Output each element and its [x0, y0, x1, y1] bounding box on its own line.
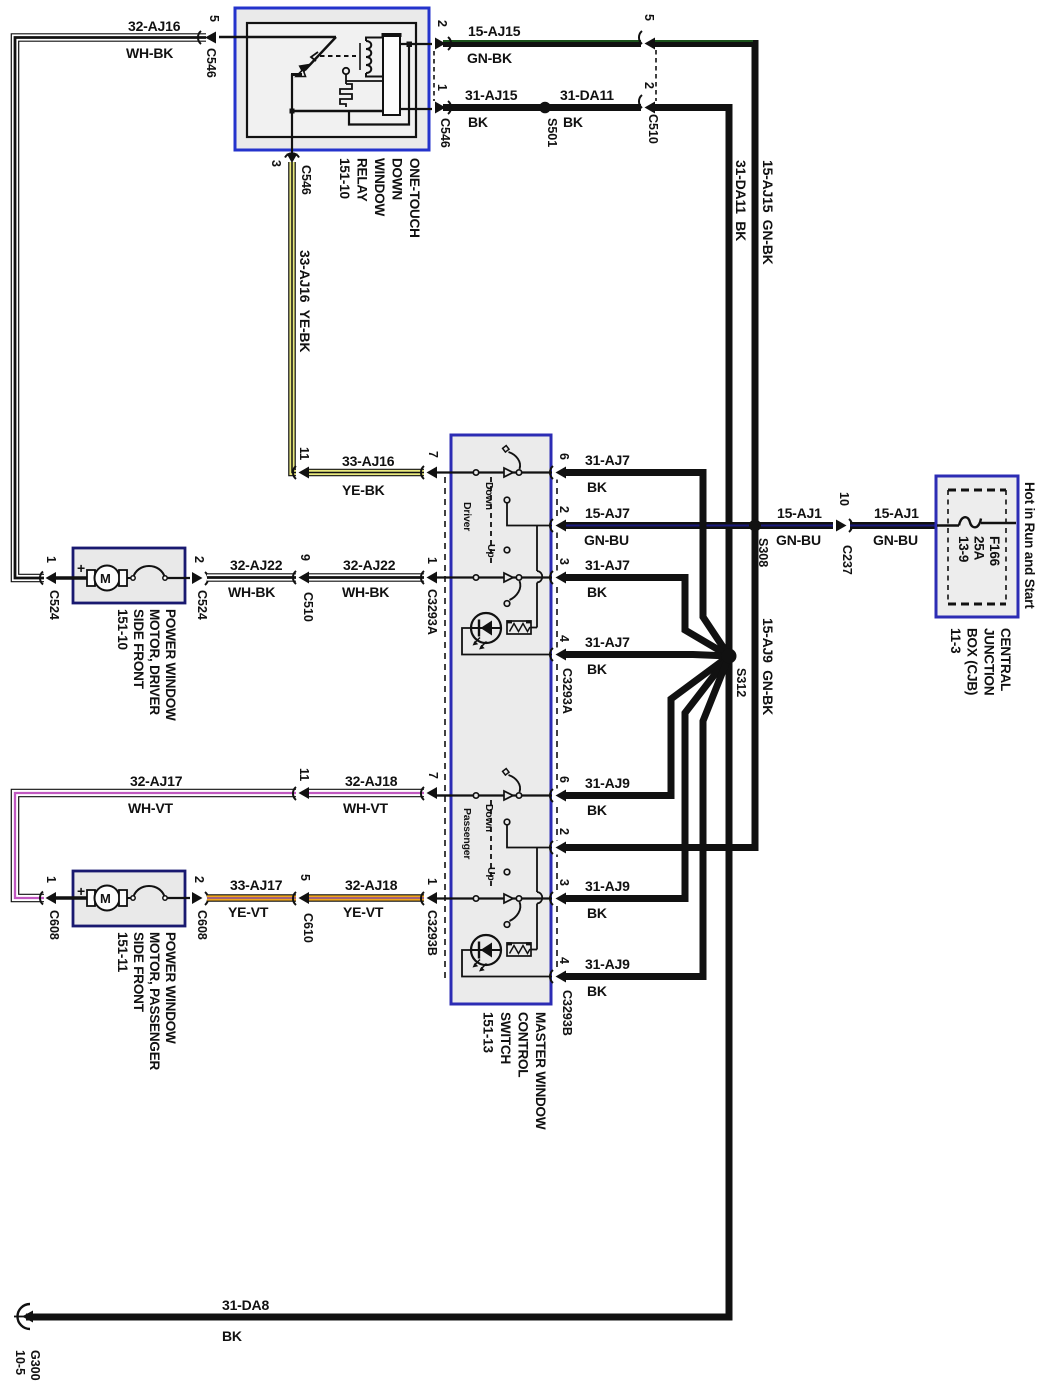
- svg-text:15-AJ15 GN-BK: 15-AJ15 GN-BK: [760, 160, 776, 265]
- passenger row1 internal wire: [436, 794, 557, 796]
- connector C546 pin2 arrow: [432, 36, 451, 51]
- passenger row3 blade triangle: [504, 894, 513, 903]
- svg-text:31-AJ15: 31-AJ15: [465, 87, 518, 103]
- switch edge arrow pin2 driver: [550, 519, 566, 533]
- driver row3 blade triangle: [504, 573, 513, 582]
- svg-text:WH-BK: WH-BK: [228, 584, 275, 600]
- svg-text:C546: C546: [204, 48, 218, 78]
- connector C608 pin1 arrow: [40, 891, 56, 905]
- svg-text:BK: BK: [587, 661, 607, 677]
- switch edge arrow pin2 passenger: [550, 841, 566, 855]
- wire 15-AJ15 GN-BK relay pin2 to C510: [443, 40, 646, 47]
- svg-text:Hot in Run and Start: Hot in Run and Start: [1022, 482, 1037, 609]
- connector C610 pin5 arrow: [293, 891, 309, 906]
- pin 3 label: [269, 160, 283, 167]
- svg-text:CENTRAL: CENTRAL: [998, 628, 1013, 691]
- relay dashed actuator link: [320, 55, 356, 57]
- svg-text:5: 5: [642, 14, 656, 21]
- svg-text:7: 7: [426, 451, 440, 458]
- svg-text:S501: S501: [545, 118, 559, 147]
- connector C3293B pin7 arrow: [421, 786, 437, 801]
- svg-text:SIDE FRONT: SIDE FRONT: [131, 609, 146, 690]
- svg-text:C610: C610: [301, 913, 315, 943]
- splice S308 label: [756, 538, 770, 567]
- svg-text:5: 5: [207, 15, 221, 22]
- wire 32-AJ18 WH-VT C610 to C3293B: [309, 789, 428, 798]
- passenger row1 contact circle left: [473, 793, 478, 798]
- svg-text:C510: C510: [301, 592, 315, 622]
- svg-text:BK: BK: [587, 983, 607, 999]
- wire 31-AJ7 BK driver pin4 to S312: [566, 655, 729, 657]
- svg-text:31-DA11: 31-DA11: [560, 87, 614, 103]
- svg-text:32-AJ22: 32-AJ22: [230, 557, 283, 573]
- connector C524 pin2 arrow: [190, 571, 208, 585]
- connector C3293B label right: [560, 990, 574, 1036]
- svg-text:SIDE FRONT: SIDE FRONT: [131, 932, 146, 1013]
- relay lower loop wire: [349, 109, 409, 125]
- fuse F166 25A: [937, 517, 1016, 527]
- ground G300 symbol: [14, 1304, 33, 1329]
- connector C524 pin1 arrow: [40, 571, 56, 585]
- driver row3 blade arc to up contact: [510, 581, 521, 600]
- connector C510 pin11 arrow: [293, 465, 309, 480]
- svg-text:11-3: 11-3: [948, 628, 963, 654]
- svg-text:11: 11: [297, 768, 311, 781]
- svg-text:5: 5: [298, 874, 312, 881]
- svg-text:C524: C524: [195, 590, 209, 620]
- pin 2 label: [435, 20, 449, 27]
- splice S501: [539, 102, 551, 114]
- svg-text:C608: C608: [195, 910, 209, 940]
- switch edge arrow pin3 driver: [550, 571, 566, 585]
- relay switch blade: [299, 37, 337, 74]
- svg-text:WINDOW: WINDOW: [372, 158, 387, 216]
- driver down contact and feed to pin2: [504, 497, 510, 503]
- svg-text:BK: BK: [587, 905, 607, 921]
- passenger row1 blade triangle: [504, 791, 513, 800]
- passenger row3 pivot circle: [516, 896, 521, 901]
- svg-text:3: 3: [557, 558, 571, 565]
- ground G300 label: [13, 1350, 42, 1381]
- wire 31-AJ9 BK passenger pin6 to S312: [566, 656, 729, 796]
- passenger row3 internal wire: [436, 897, 557, 899]
- svg-text:11: 11: [297, 447, 311, 460]
- connector C510 label: [646, 114, 660, 144]
- relay switch contact: [296, 70, 306, 77]
- wire 33-AJ16 YE-BK relay pin3 down to C510: [292, 162, 300, 473]
- relay pin 2 lead: [400, 43, 437, 45]
- svg-text:2: 2: [642, 82, 656, 89]
- svg-text:15-AJ15: 15-AJ15: [468, 23, 521, 39]
- driver feed branch to resistor with hop: [536, 526, 538, 572]
- passenger row3 contact circle left: [473, 896, 478, 901]
- wire 31-AJ7 BK driver pin3 to S312: [566, 578, 729, 657]
- svg-text:3: 3: [269, 160, 283, 167]
- relay solid-state block: [383, 34, 400, 115]
- svg-text:GN-BU: GN-BU: [776, 532, 821, 548]
- driver down-up dashed line: [490, 477, 492, 563]
- driver lamp resistor: [507, 621, 532, 634]
- passenger motor label: [115, 932, 178, 1071]
- svg-text:32-AJ17: 32-AJ17: [130, 773, 183, 789]
- relay internal junction dot: [290, 109, 295, 114]
- pin 1 label: [435, 84, 449, 91]
- wire driver row1 internal: [436, 471, 557, 473]
- driver row1 blade triangle: [504, 468, 513, 477]
- driver row1 contact circle left: [473, 470, 478, 475]
- wire 32-AJ17 WH-VT passenger motor pin1 run: [15, 793, 299, 898]
- svg-text:C524: C524: [47, 590, 61, 620]
- splice S312: [722, 649, 737, 664]
- svg-text:WH-VT: WH-VT: [128, 800, 174, 816]
- relay resistor zigzag: [340, 84, 352, 107]
- svg-text:CONTROL: CONTROL: [516, 1012, 531, 1077]
- svg-text:2: 2: [557, 506, 571, 513]
- connector C608 pin2 arrow: [190, 891, 208, 905]
- connector C237 arrow: [833, 518, 852, 533]
- splice S308: [749, 520, 761, 532]
- svg-text:C546: C546: [299, 165, 313, 195]
- svg-text:M: M: [100, 571, 111, 586]
- svg-text:BOX (CJB): BOX (CJB): [965, 628, 980, 695]
- label 15-AJ9 GN-BK vertical: [760, 618, 776, 715]
- wire 31-AJ15 BK relay pin1 to S501: [443, 104, 545, 111]
- connector C510 pin5 arrow: [639, 31, 655, 51]
- label 15-AJ15 GN-BK vertical: [760, 160, 776, 265]
- passenger down-up dashed line: [490, 800, 492, 886]
- wire 33-AJ16 YE-BK C510 to switch pin7: [309, 469, 428, 477]
- connector C546 pin3 label: [299, 165, 313, 195]
- svg-text:32-AJ16: 32-AJ16: [128, 18, 181, 34]
- svg-text:9: 9: [298, 554, 312, 561]
- passenger switch row1 stub: [436, 794, 451, 796]
- power window motor passenger box: [73, 871, 185, 926]
- svg-text:15-AJ7: 15-AJ7: [585, 505, 630, 521]
- driver row3 contact circle left: [473, 575, 478, 580]
- central junction box CJB: [936, 476, 1018, 617]
- svg-text:151-10: 151-10: [337, 158, 352, 199]
- svg-text:ONE-TOUCH: ONE-TOUCH: [407, 158, 422, 238]
- relay output junction square: [407, 42, 413, 48]
- driver row3 pivot circle: [516, 575, 521, 580]
- svg-text:33-AJ17: 33-AJ17: [230, 877, 283, 893]
- svg-text:6: 6: [557, 776, 571, 783]
- svg-text:Driver: Driver: [461, 502, 473, 531]
- connector C546 dashed link: [433, 51, 435, 101]
- svg-text:32-AJ18: 32-AJ18: [345, 877, 398, 893]
- relay pin3 lead through case: [291, 111, 293, 158]
- svg-text:C3293A: C3293A: [560, 668, 574, 714]
- svg-text:WH-BK: WH-BK: [342, 584, 389, 600]
- svg-text:31-AJ9: 31-AJ9: [585, 878, 630, 894]
- svg-text:BK: BK: [222, 1328, 242, 1344]
- label Down passenger: [483, 804, 495, 832]
- svg-text:GN-BK: GN-BK: [467, 50, 512, 66]
- svg-text:C546: C546: [438, 118, 452, 148]
- connector C546 pin3 arrow: [285, 153, 299, 163]
- svg-text:Down: Down: [483, 482, 495, 510]
- wire 32-AJ16 WH-BK from relay pin5 to driver motor pin1: [15, 38, 206, 579]
- svg-text:1: 1: [425, 878, 439, 885]
- wire 31-DA11 BK S501 to C510: [545, 104, 646, 111]
- svg-text:25A: 25A: [972, 536, 987, 561]
- svg-text:1: 1: [435, 84, 449, 91]
- passenger up contact: [504, 869, 510, 875]
- relay inner case: [247, 23, 416, 137]
- passenger lamp wire to pin4: [462, 950, 557, 977]
- relay internal bottom wire: [292, 110, 400, 112]
- svg-text:BK: BK: [563, 114, 583, 130]
- svg-text:BK: BK: [587, 802, 607, 818]
- wire 31-AJ9 BK passenger pin3 to S312: [566, 656, 729, 899]
- wire 31-AJ7 BK driver pin6 to S312: [566, 473, 729, 657]
- wire 33-AJ17 YE-VT C608 to C610: [207, 894, 299, 902]
- svg-text:1: 1: [44, 556, 58, 563]
- switch edge arrow pin6 passenger: [550, 789, 566, 803]
- relay label: [337, 158, 422, 238]
- svg-text:15-AJ1: 15-AJ1: [874, 505, 919, 521]
- svg-text:+: +: [77, 560, 85, 576]
- label Passenger: [461, 808, 473, 859]
- driver lamp wire to pin4: [462, 628, 557, 655]
- passenger row3 blade arc to up contact: [510, 902, 521, 921]
- connector C546 label left: [204, 48, 218, 78]
- svg-text:WH-BK: WH-BK: [126, 45, 173, 61]
- passenger motor symbol: [53, 886, 192, 911]
- svg-text:4: 4: [557, 635, 571, 642]
- svg-text:31-AJ7: 31-AJ7: [585, 557, 630, 573]
- svg-text:2: 2: [435, 20, 449, 27]
- label Hot in Run and Start: [1022, 482, 1037, 609]
- svg-text:10: 10: [837, 492, 851, 506]
- master window control switch box: [451, 435, 551, 1004]
- svg-text:DOWN: DOWN: [390, 158, 405, 200]
- svg-text:M: M: [100, 891, 111, 906]
- relay pin 5 internal wire: [219, 36, 336, 38]
- switch edge arrow pin4 driver: [550, 648, 566, 662]
- svg-text:2: 2: [192, 876, 206, 883]
- svg-text:2: 2: [557, 828, 571, 835]
- svg-text:C3293A: C3293A: [425, 589, 439, 635]
- svg-text:31-DA11 BK: 31-DA11 BK: [733, 160, 749, 241]
- wire 31-AJ9 BK passenger pin4 to S312: [566, 656, 729, 977]
- label Up driver: [485, 544, 497, 558]
- svg-text:6: 6: [557, 453, 571, 460]
- svg-text:32-AJ22: 32-AJ22: [343, 557, 396, 573]
- svg-text:151-11: 151-11: [115, 932, 130, 973]
- driver illumination lamp: [470, 613, 502, 650]
- label 31-DA11 BK vertical: [733, 160, 749, 241]
- svg-text:C3293B: C3293B: [425, 910, 439, 956]
- switch edge arrow pin4 passenger: [550, 970, 566, 984]
- label Driver: [461, 502, 473, 531]
- connector C3293B pin1 arrow: [421, 891, 437, 906]
- svg-text:4: 4: [557, 957, 571, 964]
- svg-text:32-AJ18: 32-AJ18: [345, 773, 398, 789]
- svg-text:S312: S312: [734, 668, 748, 697]
- driver motor label: [115, 609, 178, 721]
- wire 32-AJ18 YE-VT C610 to C3293B: [309, 894, 428, 902]
- label 33-AJ16 YE-BK vertical: [297, 250, 313, 352]
- CJB dashed fuse holder rect: [948, 490, 1006, 604]
- connector C546 label right: [438, 118, 452, 148]
- pin 5 label: [207, 15, 221, 22]
- passenger lamp resistor: [507, 943, 532, 956]
- connector C510 dashed link: [655, 50, 657, 101]
- svg-text:BK: BK: [587, 479, 607, 495]
- svg-text:RELAY: RELAY: [355, 158, 370, 202]
- passenger illumination lamp: [470, 935, 502, 972]
- passenger row1 blade arc to down contact: [509, 775, 521, 792]
- svg-text:33-AJ16 YE-BK: 33-AJ16 YE-BK: [297, 250, 313, 352]
- svg-text:31-AJ9: 31-AJ9: [585, 956, 630, 972]
- svg-text:3: 3: [557, 879, 571, 886]
- fuse label F166 25A 13-9: [956, 536, 1002, 567]
- svg-text:Up: Up: [485, 544, 497, 558]
- svg-text:YE-VT: YE-VT: [228, 904, 269, 920]
- svg-text:13-9: 13-9: [956, 536, 971, 562]
- wire 15-AJ9 GN-BK S308 down to switch passenger pin2: [566, 529, 755, 848]
- svg-text:C3293B: C3293B: [560, 990, 574, 1036]
- wire 31-DA11 BK trunk down through S312 to ground run: [26, 108, 729, 1318]
- svg-text:GN-BU: GN-BU: [873, 532, 918, 548]
- svg-text:Up: Up: [485, 867, 497, 881]
- driver row1 blade arc to down contact: [509, 452, 521, 469]
- svg-text:15-AJ1: 15-AJ1: [777, 505, 822, 521]
- label Up passenger: [485, 867, 497, 881]
- driver motor symbol: [53, 566, 192, 591]
- wire 15-AJ7 GN-BU switch pin2 to S308: [566, 522, 836, 529]
- svg-text:151-10: 151-10: [115, 609, 130, 650]
- connector C3293A pin7 arrow: [421, 465, 437, 480]
- wire 15-AJ15 GN-BK trunk down to S308: [655, 44, 755, 526]
- svg-text:POWER WINDOW: POWER WINDOW: [163, 932, 178, 1044]
- passenger down contact and feed to pin2: [504, 819, 510, 825]
- wire 15-AJ1 GN-BU C237 to CJB: [850, 522, 937, 529]
- master switch label: [481, 1012, 549, 1130]
- connector C546 pin1 arrow: [432, 100, 451, 115]
- svg-text:31-AJ7: 31-AJ7: [585, 452, 630, 468]
- svg-text:MOTOR, DRIVER: MOTOR, DRIVER: [147, 609, 162, 715]
- svg-text:JUNCTION: JUNCTION: [981, 628, 996, 695]
- svg-text:15-AJ9 GN-BK: 15-AJ9 GN-BK: [760, 618, 776, 715]
- connector C546 pin5 arrow: [198, 31, 216, 44]
- switch edge arrows right: pin6 driver: [550, 466, 566, 480]
- svg-text:BK: BK: [468, 114, 488, 130]
- relay resistor node circle: [343, 68, 349, 74]
- svg-text:Passenger: Passenger: [461, 808, 473, 859]
- svg-text:YE-VT: YE-VT: [343, 904, 384, 920]
- svg-text:SWITCH: SWITCH: [498, 1012, 513, 1064]
- svg-text:Down: Down: [483, 804, 495, 832]
- connector C3293A label right: [560, 668, 574, 714]
- svg-text:1: 1: [44, 876, 58, 883]
- relay coil: [360, 38, 384, 77]
- connector C3293A pin1 arrow: [421, 570, 437, 585]
- wire 32-AJ22 WH-BK C510 to C3293A: [309, 573, 428, 582]
- switch edge arrow pin3 passenger: [550, 892, 566, 906]
- connector C3293 dashed line left: [444, 477, 446, 978]
- svg-text:POWER WINDOW: POWER WINDOW: [163, 609, 178, 721]
- relay wire contact to junction: [291, 73, 302, 76]
- connector C510 pin9 arrow: [293, 570, 309, 585]
- svg-text:C510: C510: [646, 114, 660, 144]
- driver up contact: [504, 547, 510, 553]
- svg-text:10-5: 10-5: [13, 1350, 27, 1375]
- svg-text:1: 1: [425, 557, 439, 564]
- connector C610 pin11 arrow: [293, 786, 309, 801]
- svg-text:31-AJ9: 31-AJ9: [585, 775, 630, 791]
- svg-text:G300: G300: [28, 1350, 42, 1381]
- relay box ONE-TOUCH DOWN WINDOW RELAY outer: [235, 8, 429, 150]
- svg-text:YE-BK: YE-BK: [342, 482, 385, 498]
- svg-text:MASTER WINDOW: MASTER WINDOW: [533, 1012, 548, 1130]
- relay output link wire: [408, 44, 410, 109]
- label Down driver: [483, 482, 495, 510]
- svg-text:BK: BK: [587, 584, 607, 600]
- relay pin 1 lead: [400, 108, 437, 110]
- wire 32-AJ22 WH-BK C524 to C510: [207, 573, 299, 582]
- passenger row1 pivot circle: [516, 793, 521, 798]
- svg-text:31-AJ7: 31-AJ7: [585, 634, 630, 650]
- connector C510 pin2 arrow: [639, 95, 655, 115]
- connector C3293 dashed line right: [556, 477, 558, 978]
- wire driver row3 internal: [436, 576, 557, 578]
- svg-text:151-13: 151-13: [481, 1012, 496, 1054]
- svg-text:C608: C608: [47, 910, 61, 940]
- svg-text:2: 2: [192, 556, 206, 563]
- CJB label: [948, 628, 1013, 695]
- svg-text:WH-VT: WH-VT: [343, 800, 389, 816]
- svg-text:F166: F166: [987, 536, 1002, 567]
- svg-text:C237: C237: [840, 545, 854, 575]
- passenger feed branch to resistor with hop: [536, 848, 538, 893]
- svg-text:MOTOR, PASSENGER: MOTOR, PASSENGER: [147, 932, 162, 1071]
- driver row1 pivot circle: [516, 470, 521, 475]
- svg-text:31-DA8: 31-DA8: [222, 1297, 269, 1313]
- svg-text:GN-BU: GN-BU: [584, 532, 629, 548]
- power window motor driver box: [73, 548, 185, 603]
- svg-text:33-AJ16: 33-AJ16: [342, 453, 395, 469]
- svg-text:7: 7: [426, 772, 440, 779]
